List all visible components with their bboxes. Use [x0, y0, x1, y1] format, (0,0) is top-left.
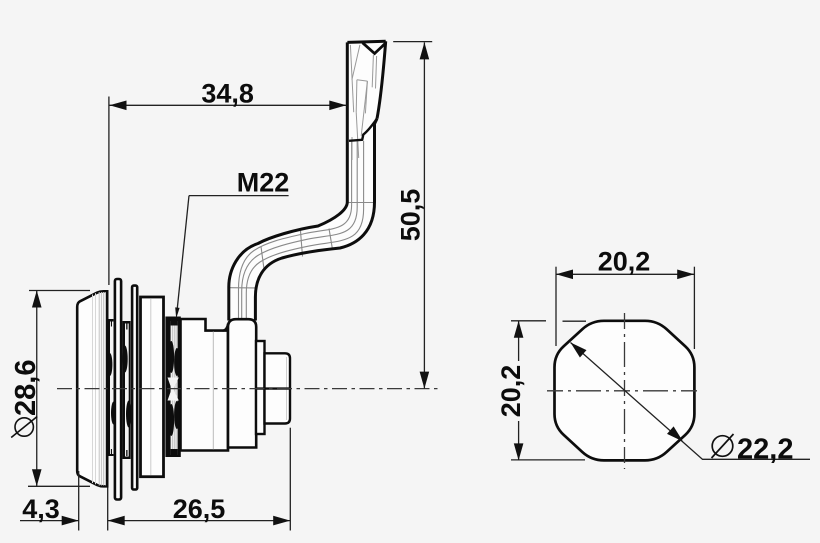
svg-text:M22: M22 — [237, 168, 290, 198]
washer W2 — [132, 286, 137, 490]
svg-text:26,5: 26,5 — [173, 494, 226, 524]
handle outer edge right — [255, 119, 377, 321]
svg-text:22,2: 22,2 — [737, 433, 793, 465]
svg-text:4,3: 4,3 — [22, 494, 60, 524]
dimension 26,5 — [108, 428, 291, 531]
svg-text:20,2: 20,2 — [598, 247, 651, 277]
handle tube inner fold line 3 — [246, 141, 363, 320]
handle grip thin fold lines — [350, 45, 376, 160]
cam edge line — [256, 387, 290, 389]
handle grip V-notch — [363, 43, 386, 54]
body step shading line — [212, 332, 214, 450]
lock body cylinder — [181, 319, 229, 451]
dimension diameter 28,6 — [10, 291, 90, 487]
octagon horizontal centerline — [547, 390, 700, 392]
svg-text:28,6: 28,6 — [10, 360, 42, 416]
dimension 20,2 top — [556, 247, 694, 350]
handle tube inner fold line 2 — [242, 141, 358, 320]
cam shaft — [265, 353, 291, 423]
octagon vertical centerline — [624, 313, 626, 469]
dimension 34,8 — [109, 78, 346, 285]
centerline left view — [57, 388, 440, 390]
washer W1 — [115, 279, 121, 500]
dimension 50,5 — [393, 42, 432, 389]
handle outer edge left — [229, 42, 347, 320]
svg-text:34,8: 34,8 — [201, 78, 254, 108]
dimension 20,2 left — [496, 321, 586, 461]
handle grip top edge — [347, 41, 385, 42]
body-collar fillet — [223, 324, 229, 331]
mounting nut — [141, 297, 164, 477]
front collar — [228, 319, 256, 447]
svg-text:20,2: 20,2 — [496, 365, 526, 418]
head bezel — [77, 291, 107, 486]
handle grip bottom jog — [349, 119, 377, 141]
M22 label — [175, 168, 289, 319]
dimension 4,3 — [20, 471, 108, 531]
head shading lines — [93, 293, 96, 484]
handle silhouette fill — [229, 41, 386, 320]
handle bend transverse tick marks — [230, 203, 375, 288]
dimension diameter 22,2 diagonal — [571, 343, 811, 466]
shaft shading line — [286, 357, 288, 420]
nut shading line — [150, 299, 152, 475]
handle grip right edge — [377, 41, 386, 118]
thread band T3 — [165, 317, 180, 458]
octagon cam profile — [555, 321, 695, 461]
shaft washer disc — [256, 341, 265, 434]
thread band T2 — [122, 321, 132, 459]
svg-text:50,5: 50,5 — [396, 189, 426, 242]
handle tube inner fold line 1 — [239, 141, 352, 320]
thread band T1 — [107, 319, 116, 456]
